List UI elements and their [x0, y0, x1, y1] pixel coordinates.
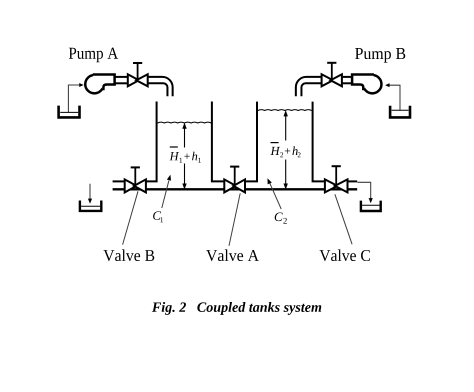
pipe elbow into tank 1 — [148, 77, 173, 96]
leader valve C — [335, 194, 352, 244]
level arrow tank 1 — [184, 126, 186, 148]
tank 1 left wall — [146, 102, 157, 182]
reservoir pump A supply — [59, 106, 80, 118]
fall arrowhead left — [88, 199, 92, 204]
tank 1 right wall — [212, 102, 224, 182]
label Valve C — [319, 249, 369, 261]
valve C handle — [332, 165, 341, 167]
bottom pipe lower line — [113, 188, 358, 190]
overbar H1 — [170, 146, 178, 148]
label H2+h2 — [270, 146, 300, 157]
valve V1 handle — [133, 62, 142, 64]
label Pump B — [355, 48, 405, 63]
label Valve A — [206, 249, 259, 261]
fall line to left reservoir — [89, 184, 91, 199]
leader valve B — [123, 191, 138, 244]
pump B — [352, 73, 381, 94]
reservoir B water line — [392, 109, 409, 111]
label C1 — [153, 211, 163, 222]
valve V1 stem — [137, 63, 139, 80]
pump B suction arrowhead — [385, 83, 389, 87]
valve V2 stem — [331, 63, 333, 81]
tank 2 water surface — [258, 109, 312, 112]
valve C body — [325, 179, 338, 192]
leader valve A — [229, 193, 240, 246]
tank 1 water surface — [158, 121, 212, 124]
discharge arrowhead right — [369, 198, 373, 203]
bottom pipe right upper line — [348, 180, 358, 182]
pump A — [85, 73, 114, 94]
leader C2 — [269, 182, 281, 209]
valve V2 body — [322, 74, 333, 86]
tank 2 right wall — [313, 102, 325, 182]
valve V1 body — [128, 74, 139, 86]
label C2 — [275, 213, 287, 224]
valve B stem — [134, 167, 136, 185]
tank 2 left wall — [245, 102, 257, 182]
valve A body — [224, 179, 236, 192]
pump B suction line — [389, 85, 400, 110]
label H1+h1 — [169, 152, 200, 163]
label Pump A — [69, 48, 118, 63]
reservoir A water line — [60, 111, 78, 113]
bottom pipe left upper line — [113, 180, 125, 182]
pipe elbow into tank 2 — [296, 77, 322, 96]
valve A stem — [234, 167, 236, 185]
reservoir right water line — [362, 204, 379, 206]
pipe pump A to valve — [115, 76, 128, 78]
pump A suction line — [68, 85, 79, 112]
overbar H2 — [271, 142, 279, 144]
reservoir left drain — [80, 201, 101, 211]
leader C1 — [162, 181, 169, 209]
caption — [152, 302, 321, 315]
valve C stem — [335, 166, 337, 185]
pump A suction arrowhead — [79, 83, 83, 87]
valve A handle — [230, 166, 239, 168]
reservoir left water line — [81, 205, 100, 207]
level arrow tank 2 — [285, 114, 287, 141]
valve B body — [125, 179, 137, 192]
reservoir right drain — [361, 201, 381, 211]
label Valve B — [103, 249, 154, 261]
pipe pump B to valve — [342, 76, 353, 78]
valve V2 handle — [327, 62, 336, 64]
reservoir pump B supply — [390, 106, 410, 118]
discharge line to right reservoir — [357, 182, 370, 198]
valve B handle — [131, 166, 140, 168]
